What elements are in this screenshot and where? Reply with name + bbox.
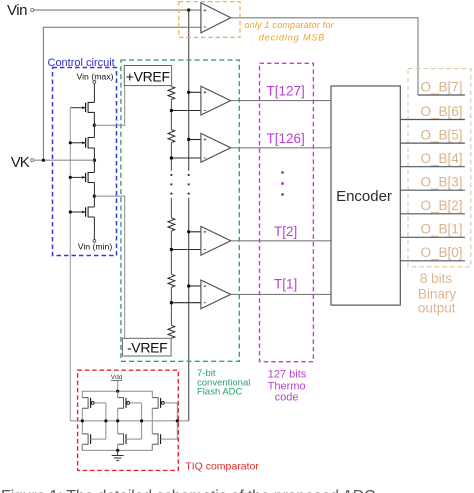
- svg-text:Vin (max): Vin (max): [76, 71, 113, 81]
- svg-text:8 bits: 8 bits: [420, 271, 453, 286]
- ladder ellipsis dots: [170, 174, 190, 195]
- wire T[126]: [231, 147, 331, 149]
- svg-text:O_B[5]: O_B[5]: [420, 127, 462, 142]
- svg-text:Encoder: Encoder: [336, 188, 392, 205]
- svg-text:Flash ADC: Flash ADC: [197, 387, 243, 398]
- wire gate bus: [69, 108, 71, 421]
- wire O_B[1]: [400, 236, 465, 238]
- wire control-circuit main column: [93, 83, 95, 239]
- wire Vdd stem: [117, 381, 119, 392]
- wire Vin vertical (lower): [188, 198, 190, 421]
- svg-text:Figure 1: The detailed schemat: Figure 1: The detailed schematic of the …: [1, 488, 375, 493]
- -VREF box: [122, 338, 171, 356]
- transistor N2: [118, 434, 142, 444]
- svg-text:T[126]: T[126]: [266, 131, 304, 146]
- node gate junctions: [69, 141, 72, 144]
- wire O_B[2]: [400, 213, 465, 215]
- svg-text:127 bits: 127 bits: [268, 368, 307, 380]
- comparator U4: [170, 280, 231, 309]
- resistor R2: [168, 130, 175, 143]
- svg-text:O_B[4]: O_B[4]: [420, 151, 462, 166]
- node TIQ mid junctions: [81, 419, 179, 422]
- node Vdd junction: [116, 390, 119, 393]
- comparator U3: [170, 226, 231, 255]
- resistor R1: [168, 87, 175, 100]
- transistor M4: [70, 207, 94, 217]
- wire ground rail: [82, 444, 152, 450]
- wire P2/N2 drain column: [117, 408, 119, 450]
- svg-text:code: code: [275, 392, 299, 404]
- orange dashed box: only 1 comparator: [179, 2, 240, 38]
- ground: [112, 450, 124, 460]
- label only 1 comparator for deciding MSB: [245, 20, 335, 42]
- resistor R5: [168, 325, 175, 338]
- wire T[2]: [231, 240, 331, 242]
- svg-text:O_B[3]: O_B[3]: [420, 175, 462, 190]
- wire VK horizontal: [34, 159, 95, 161]
- wire Vin horizontal: [34, 9, 201, 11]
- transistor P2: [118, 398, 142, 409]
- node Vin (max) terminal: [76, 71, 113, 83]
- wire O_B[3]: [400, 189, 465, 191]
- label 127 bits Thermo code: [268, 368, 307, 403]
- magenta dashed box: thermo code: [260, 63, 314, 361]
- comparator U0 (MSB): [201, 3, 231, 33]
- resistor R3: [168, 218, 175, 231]
- svg-text:T[1]: T[1]: [274, 276, 297, 291]
- node Vin terminal: [7, 2, 34, 19]
- svg-text:O_B[0]: O_B[0]: [420, 245, 462, 260]
- svg-text:T[2]: T[2]: [274, 224, 297, 239]
- blue dashed box: Control circuit: [53, 68, 117, 256]
- svg-text:Binary: Binary: [418, 286, 457, 301]
- transistor M3: [70, 173, 94, 183]
- transistor M2: [70, 138, 94, 149]
- red dashed box: TIQ comparator: [78, 370, 179, 470]
- wire node C to -VREF: [94, 196, 124, 338]
- svg-text:O_B[6]: O_B[6]: [420, 104, 462, 119]
- label 8 bits Binary output: [418, 271, 457, 316]
- wire gate vertical 1: [105, 403, 107, 439]
- node C (to -VREF): [93, 194, 96, 197]
- wire O_B[5]: [400, 142, 465, 144]
- wire O_B[4]: [400, 166, 465, 168]
- thermo ellipsis dots: [281, 171, 284, 196]
- transistor N3: [152, 434, 177, 444]
- +VREF box: [124, 66, 171, 86]
- wire P1/N1 drain column: [81, 408, 83, 450]
- svg-text:Vin (min): Vin (min): [78, 242, 113, 252]
- svg-text:-VREF: -VREF: [127, 340, 168, 356]
- wire gate vertical 2: [141, 403, 143, 439]
- wire Vin vertical (upper): [188, 10, 190, 171]
- wire P3/N3 drain column: [151, 408, 153, 450]
- svg-text:output: output: [418, 301, 456, 316]
- node Vin branch junction: [187, 8, 190, 11]
- wire resistor ladder segments: [170, 100, 172, 326]
- node Vin (min) terminal: [78, 240, 113, 252]
- wire gate vertical 3: [176, 403, 178, 439]
- svg-text:deciding MSB: deciding MSB: [259, 32, 325, 42]
- transistor P1: [82, 398, 106, 409]
- svg-text:T[127]: T[127]: [266, 83, 304, 98]
- wire T[127]: [231, 100, 331, 102]
- wire TIQ mid line: [70, 420, 188, 422]
- svg-text:O_B[2]: O_B[2]: [420, 198, 462, 213]
- node B (VK): [93, 159, 96, 162]
- wire VK to MSB comparator: [43, 27, 201, 160]
- svg-text:Vdd: Vdd: [111, 374, 123, 381]
- transistor P3: [152, 398, 177, 409]
- wire T[1]: [231, 293, 331, 295]
- svg-text:Control circuit: Control circuit: [48, 57, 115, 69]
- node A (to +VREF): [93, 124, 96, 127]
- node VK terminal: [11, 154, 34, 171]
- resistor R4: [168, 274, 175, 287]
- node VK branch junction: [42, 159, 45, 162]
- wire O_B[6]: [400, 119, 465, 121]
- comparator U2: [170, 133, 231, 162]
- green dashed box: 7-bit flash ADC: [121, 60, 239, 361]
- encoder box U5: [331, 86, 400, 305]
- wire MSB output to O_B[7]: [231, 18, 418, 95]
- svg-text:VK: VK: [11, 154, 30, 171]
- wire node A to +VREF: [94, 86, 124, 126]
- wire Vdd rail: [82, 391, 152, 397]
- svg-text:Vin: Vin: [7, 2, 27, 19]
- svg-text:O_B[7]: O_B[7]: [420, 79, 462, 94]
- comparator U1: [170, 86, 231, 115]
- wire O_B[0]: [400, 260, 465, 262]
- transistor M1: [70, 102, 94, 112]
- transistor N1: [82, 434, 106, 444]
- label 7-bit conventional Flash ADC: [197, 368, 250, 397]
- wire O_B[7]: [418, 94, 465, 96]
- svg-text:+VREF: +VREF: [126, 68, 170, 84]
- orange dashed box: binary output: [408, 69, 471, 267]
- svg-text:only 1 comparator for: only 1 comparator for: [245, 20, 335, 30]
- svg-text:TIQ comparator: TIQ comparator: [185, 461, 259, 473]
- svg-text:O_B[1]: O_B[1]: [420, 222, 462, 237]
